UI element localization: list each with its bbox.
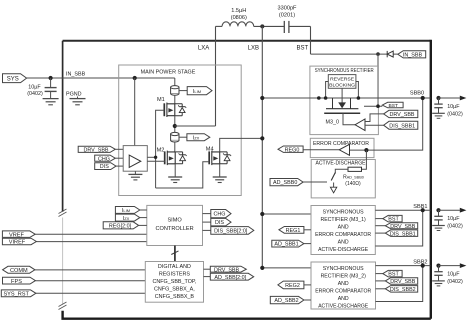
node junction SBB0 rail / sense drop: [421, 96, 425, 100]
net tag AD_SBB1: [272, 240, 304, 247]
wire LXB rail to SBB2 block: [262, 267, 311, 269]
ground (driver): [128, 174, 142, 180]
wire VREF to SIMO controller: [35, 233, 147, 235]
node junction BST net / vertical drop: [376, 52, 380, 56]
wire SBB1 block to BST tag: [375, 218, 383, 220]
wire SBB1 output: [375, 209, 430, 211]
svg-text:ERROR COMPARATOR: ERROR COMPARATOR: [315, 289, 371, 295]
wire controller to DIS_SBB[2:0] tag: [203, 229, 211, 231]
wire SBB2 block to BST tag: [376, 273, 383, 275]
net tag REG2: [278, 281, 304, 289]
current sensor IZX (cylinder): [171, 132, 179, 142]
svg-text:M2: M2: [157, 148, 165, 154]
pin tag FPS: [3, 277, 36, 285]
net tag AD_SBB[2:0] (digital output): [210, 273, 253, 281]
svg-text:(0402): (0402): [447, 279, 463, 285]
wire digital to DRV_SBB tag: [204, 268, 211, 270]
wire sensor to IZX tag: [179, 136, 187, 138]
wire M4 source to ground: [219, 164, 221, 177]
net tag DRV_SBB (digital output): [210, 266, 246, 273]
svg-text:DIS: DIS: [215, 220, 224, 226]
svg-text:BST: BST: [388, 272, 399, 278]
pin tag VIREF: [2, 238, 36, 245]
node junction BST drop / tag wire: [376, 104, 380, 108]
transistor M3_0 (synchronous rectifier, horizontal): [324, 98, 360, 113]
svg-text:RECTIFIER (M3_1): RECTIFIER (M3_1): [320, 217, 366, 223]
node junction SBB1 / output cap: [436, 208, 440, 212]
svg-text:AD_SBB2: AD_SBB2: [274, 298, 298, 304]
svg-text:DIS_SBB1: DIS_SBB1: [389, 123, 415, 129]
node junction sense / active-discharge branch: [364, 148, 368, 152]
svg-text:(0201): (0201): [279, 13, 295, 19]
pin tag SYS: [3, 74, 27, 83]
svg-text:AND: AND: [338, 240, 349, 246]
svg-text:DIGITAL AND: DIGITAL AND: [158, 264, 191, 270]
wire driver ground stub: [134, 171, 136, 174]
wire SBB2 block to DRV_SBB tag: [376, 280, 386, 282]
arrow SBB0 output: [460, 96, 467, 101]
ACTIVE-DISCHARGE box (SBB0): [311, 160, 375, 198]
wire LXA node to LXA pin: [175, 125, 216, 127]
svg-text:SIMO: SIMO: [167, 218, 182, 224]
svg-text:DRV_SBB: DRV_SBB: [390, 279, 415, 285]
svg-text:CHG: CHG: [214, 212, 226, 218]
wire SYS_RST to digital block: [36, 292, 145, 294]
svg-text:SBB0: SBB0: [410, 91, 424, 97]
wire LXB rail to SBB1 block: [262, 213, 311, 215]
wire SBB1 block to DIS_SBB1 tag: [375, 232, 385, 234]
wire COMM to digital block: [35, 269, 145, 271]
net tag DRV_SBB (SBB0 driver): [384, 110, 418, 118]
IC boundary (chip outline): [63, 40, 431, 319]
SBB2 block (sync rect + error comp + active discharge): [311, 262, 376, 309]
svg-text:FPS: FPS: [11, 279, 22, 285]
svg-text:SYS_RST: SYS_RST: [3, 292, 29, 298]
wire LXA pin line (inductor left lead down to LXA switching node): [215, 26, 217, 126]
svg-text:DRV_SBB: DRV_SBB: [214, 267, 239, 273]
node junction SBB2 output / return: [421, 264, 425, 268]
wire controller to CHG tag: [203, 213, 211, 215]
net tag DRV_SBB (SBB1): [385, 223, 417, 230]
net tag DIS_SBB[2:0] (controller output): [211, 227, 254, 235]
wire BST pin line down: [310, 26, 312, 54]
DIGITAL AND REGISTERS box: [145, 262, 203, 303]
node junction SYS / input cap: [49, 76, 53, 80]
wire M1 source to LXA node: [174, 116, 176, 133]
node junction SBB2 / output cap: [436, 264, 440, 268]
ground (M4 source): [213, 177, 227, 183]
svg-text:AD_SBB[2:0]: AD_SBB[2:0]: [214, 275, 246, 281]
wire SBB0 rail (LXB junction to output): [262, 97, 430, 99]
wire digital to AD_SBB[2:0] tag: [204, 276, 211, 278]
net tag CHG (controller output): [211, 210, 231, 218]
net tag ILIM (controller input): [115, 207, 139, 215]
net tag DIS (driver input): [95, 163, 116, 171]
capacitor COUT0 10uF 0402: [432, 98, 445, 118]
node junction LXA switching node: [173, 124, 177, 128]
svg-text:SBB1: SBB1: [413, 204, 427, 210]
bus controller to digital block: [174, 246, 176, 262]
wire SYS to IN_SBB rail: [27, 77, 175, 79]
svg-text:RECTIFIER (M3_2): RECTIFIER (M3_2): [321, 274, 367, 280]
comparator U3 (SBB0): [339, 144, 349, 155]
wire driver output to M1/M4 gate net: [147, 156, 155, 158]
wire AD_SBB0 to switch control: [303, 181, 327, 183]
node junction rail / right: [357, 96, 361, 100]
wire M4 drain to LXB rail: [220, 138, 263, 152]
net tag REG0: [278, 146, 303, 153]
REVERSE BLOCKING box: [328, 75, 356, 89]
node junction rail / M3_0 left: [324, 96, 328, 100]
svg-text:SYNCHRONOUS: SYNCHRONOUS: [323, 266, 364, 272]
svg-text:AD_SBB1: AD_SBB1: [274, 242, 298, 248]
node junction LXB rail / M4: [260, 136, 264, 140]
svg-text:ERROR COMPARATOR: ERROR COMPARATOR: [313, 141, 369, 147]
wire sensor to M2 drain: [174, 142, 176, 152]
ground PGND pin: [70, 97, 86, 105]
net tag BST (SBB0 driver): [382, 102, 403, 109]
wire DRV_SBB to driver: [365, 114, 384, 122]
wire sensor to ILIM tag: [179, 90, 187, 92]
net tag DIS (controller output): [211, 218, 231, 226]
svg-text:(0402): (0402): [447, 112, 463, 118]
ERROR COMPARATOR box (SBB0): [310, 138, 374, 157]
boundary break mark (upper, on left edge): [59, 209, 67, 217]
net tag AD_SBB0: [270, 179, 303, 187]
svg-text:AND: AND: [338, 296, 349, 302]
arrow SBB2 output: [460, 263, 467, 268]
net tag IN_SBB (top right, reverse-block diode): [398, 51, 426, 59]
svg-text:SBB2: SBB2: [413, 259, 427, 265]
pin tag SYS_RST: [1, 290, 36, 298]
wire reverse-blocking right to rail: [356, 82, 359, 99]
wire driver supply drop: [134, 78, 136, 146]
wire REG2 to SBB2 block: [304, 284, 311, 286]
net tag CHG (driver input): [95, 155, 116, 162]
node junction SBB1 output / return: [421, 208, 425, 212]
svg-text:3300pF: 3300pF: [278, 6, 298, 12]
svg-text:IN_SBB: IN_SBB: [66, 71, 86, 77]
svg-text:10µF: 10µF: [447, 216, 460, 222]
capacitor CIN 10uF 0402: [45, 78, 57, 99]
net tag IZX: [187, 134, 210, 142]
inductor L 1.5uH: [222, 22, 262, 27]
node junction at LXB / inductor right: [260, 24, 264, 28]
svg-text:IN_SBB: IN_SBB: [403, 52, 423, 58]
wire controller to DIS tag: [203, 221, 211, 223]
svg-text:SYNCHRONOUS: SYNCHRONOUS: [323, 210, 364, 216]
svg-text:DIS_SBB1: DIS_SBB1: [390, 231, 416, 237]
wire CHG to driver: [115, 157, 123, 159]
SYNCHRONOUS RECTIFIER box (SBB0): [310, 66, 379, 135]
wire VIREF to SIMO controller: [36, 241, 146, 243]
pin tag COMM (bidirectional): [3, 266, 35, 274]
svg-text:BST: BST: [296, 45, 308, 51]
net tag ILIM: [187, 87, 212, 95]
svg-text:REG2: REG2: [285, 283, 300, 289]
svg-text:VREF: VREF: [9, 232, 25, 238]
svg-text:AND: AND: [338, 281, 349, 287]
node junction LXB rail / SBB2: [260, 266, 264, 270]
wire REG1 to SBB1 block: [304, 229, 311, 231]
svg-text:DIS: DIS: [100, 164, 109, 170]
wire driver output to M2 gate: [147, 160, 164, 162]
net tag IZX (controller input): [115, 214, 139, 222]
svg-text:PGND: PGND: [66, 92, 82, 98]
switch SW (active discharge): [331, 173, 335, 181]
gate driver U1 (box with triangle): [123, 146, 147, 172]
boundary break mark (lower, on left edge): [59, 302, 67, 310]
svg-text:M1: M1: [157, 97, 165, 103]
wire M1 gate: [156, 110, 165, 188]
svg-text:ACTIVE-DISCHARGE: ACTIVE-DISCHARGE: [316, 160, 367, 166]
svg-text:LXA: LXA: [198, 45, 209, 51]
net tag REG[2:0] (controller input): [103, 222, 138, 230]
ground (M2 source): [168, 177, 182, 183]
svg-text:(0402): (0402): [27, 91, 43, 97]
wire SBB1 block to DRV_SBB tag: [375, 225, 385, 227]
net tag BST (SBB1): [383, 215, 402, 222]
wire M4 gate net (shared with M1): [156, 162, 210, 188]
wire reverse-blocking body lead: [341, 88, 343, 102]
wire M3_0 gate to driver: [343, 113, 355, 125]
svg-text:(140Ω): (140Ω): [345, 181, 361, 187]
wire sense branch down to resistor: [362, 150, 367, 169]
svg-text:BST: BST: [388, 217, 399, 223]
svg-text:VIREF: VIREF: [9, 240, 26, 246]
wire cap to BST pin: [289, 25, 311, 27]
wire DIS_SBB1 to driver: [365, 124, 384, 126]
svg-text:CONTROLLER: CONTROLLER: [155, 226, 193, 232]
node junction SBB0 / output cap: [436, 96, 440, 100]
capacitor COUT1 10uF 0402: [432, 210, 445, 230]
node junction LXB rail / SBB1: [260, 212, 264, 216]
net tag AD_SBB2: [270, 296, 304, 304]
wire BST to driver supply: [364, 105, 382, 107]
wire BST vertical drop to driver supply: [377, 54, 379, 106]
svg-text:REG0: REG0: [285, 147, 300, 153]
svg-text:1.5µH: 1.5µH: [231, 8, 246, 14]
wire SBB2 active-discharge return: [376, 266, 423, 302]
svg-text:DRV_SBB: DRV_SBB: [83, 148, 108, 154]
SIMO CONTROLLER box: [147, 205, 203, 245]
net tag BST (SBB2): [383, 270, 402, 277]
svg-text:DRV_SBB: DRV_SBB: [390, 224, 415, 230]
wire FPS to digital block: [35, 280, 145, 282]
svg-text:CNFG_SBBX_A,: CNFG_SBBX_A,: [154, 287, 195, 293]
diode D1 (IN_SBB to BST charge path): [387, 51, 393, 57]
svg-text:ACTIVE-DISCHARGE: ACTIVE-DISCHARGE: [318, 304, 369, 310]
svg-text:BLOCKING: BLOCKING: [329, 83, 355, 88]
wire DIS to driver: [116, 165, 123, 167]
svg-text:DIS_SBB2: DIS_SBB2: [390, 287, 416, 293]
svg-text:10µF: 10µF: [447, 272, 460, 278]
wire LXB pin line down (rail to M4 / rectifier blocks): [261, 26, 263, 268]
svg-text:LXB: LXB: [248, 45, 259, 51]
svg-text:BST: BST: [389, 103, 399, 109]
node junction IN_SBB rail / driver supply branch: [133, 76, 137, 80]
wire IZX tag to controller: [140, 217, 147, 219]
capacitor COUT2 10uF 0402: [432, 266, 445, 286]
svg-text:DIS_SBB[2:0]: DIS_SBB[2:0]: [214, 228, 248, 234]
svg-text:ERROR COMPARATOR: ERROR COMPARATOR: [315, 232, 371, 238]
wire AD_SBB2 to SBB2 block: [304, 299, 311, 301]
svg-text:COMM: COMM: [10, 268, 28, 274]
svg-text:M3_0: M3_0: [326, 120, 340, 126]
SBB1 block (sync rect + error comp + active discharge): [311, 206, 375, 255]
wire ILIM tag to controller: [140, 209, 147, 211]
svg-text:10µF: 10µF: [447, 104, 460, 110]
wire SBB2 block to DIS_SBB2 tag: [376, 288, 386, 290]
wire SBB0 sense drop to comparator: [350, 98, 423, 150]
capacitor CBST 3300pF: [284, 21, 289, 33]
svg-text:SYS: SYS: [7, 77, 19, 83]
svg-text:CNFG_SBB_TOP,: CNFG_SBB_TOP,: [152, 279, 196, 285]
wire resistor to switch: [335, 169, 348, 173]
net tag DIS_SBB1 (SBB1): [385, 230, 417, 237]
wire comparator output to REG0: [303, 149, 339, 151]
wire sensor to M1 drain: [174, 95, 176, 104]
arrow SBB1 output: [460, 208, 467, 213]
ground (under input cap): [43, 99, 59, 105]
svg-text:(0402): (0402): [447, 224, 463, 230]
svg-text:AD_SBB0: AD_SBB0: [273, 180, 297, 186]
svg-text:REGISTERS: REGISTERS: [159, 272, 191, 278]
wire REG[2:0] tag to controller: [139, 224, 147, 226]
wire AD_SBB1 to SBB1 block: [304, 243, 311, 245]
wire SBB1 active-discharge return: [375, 210, 422, 246]
net tag DIS_SBB1 (SBB0 driver): [384, 121, 418, 129]
wire BST net horizontal to reverse-blocking diode: [311, 53, 398, 55]
wire reverse-blocking left to rail: [326, 82, 329, 99]
net tag DRV_SBB (SBB2): [385, 278, 417, 285]
wire SBB2 output: [376, 265, 431, 267]
svg-text:10µF: 10µF: [28, 84, 41, 90]
resistor RAD_SBB0 (140 ohm): [348, 167, 362, 171]
svg-text:REG[2:0]: REG[2:0]: [109, 224, 132, 230]
svg-text:AND: AND: [338, 225, 349, 231]
svg-text:MAIN POWER STAGE: MAIN POWER STAGE: [141, 70, 196, 76]
MAIN POWER STAGE box: [119, 65, 242, 196]
wire IN_SBB rail to M1: [174, 78, 176, 86]
wire DRV_SBB to driver: [115, 148, 123, 150]
current sensor ILIM (cylinder): [171, 86, 179, 96]
net tag DRV_SBB (driver input): [78, 146, 115, 153]
svg-text:REVERSE: REVERSE: [330, 77, 354, 82]
svg-text:ACTIVE-DISCHARGE: ACTIVE-DISCHARGE: [318, 247, 369, 253]
svg-text:SYNCHRONOUS RECTIFIER: SYNCHRONOUS RECTIFIER: [315, 68, 374, 74]
ground arrow (discharge path): [330, 187, 336, 193]
net tag DIS_SBB2 (SBB2): [385, 286, 417, 293]
wire M2 source to ground: [174, 164, 176, 177]
svg-text:(0806): (0806): [231, 15, 247, 21]
svg-text:DRV_SBB: DRV_SBB: [389, 112, 414, 118]
svg-text:CHG: CHG: [98, 156, 110, 162]
node junction rail / reverse-block left: [317, 96, 321, 100]
node junction gate net: [154, 156, 157, 159]
node junction LXB / SBB0 rail: [260, 96, 264, 100]
wire inductor left lead: [216, 25, 223, 27]
wire LXB node (inductor to cap): [262, 25, 285, 27]
svg-text:REG1: REG1: [286, 228, 301, 234]
pin tag VREF: [2, 231, 35, 238]
svg-text:CNFG_SBBX_B: CNFG_SBBX_B: [155, 294, 195, 300]
net tag REG1: [279, 227, 304, 235]
gate driver U2 (triangle, SBB0 rectifier): [355, 119, 365, 131]
